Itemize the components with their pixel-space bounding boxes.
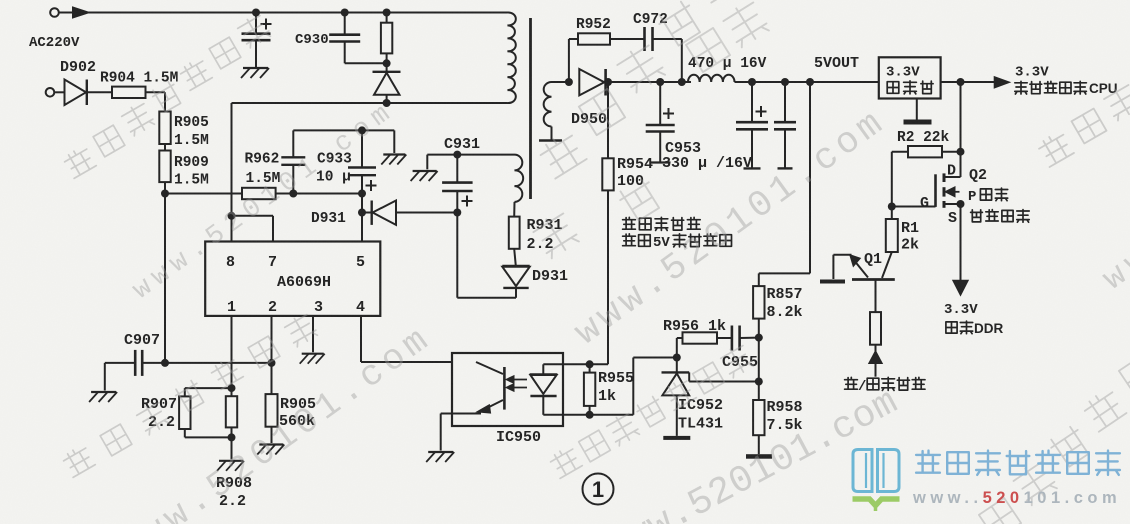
AC input terminal (top) — [50, 8, 59, 17]
resistor R952 — [578, 33, 610, 44]
label 560k — [279, 413, 315, 430]
watermark — [616, 176, 663, 223]
wire — [758, 435, 760, 454]
wire — [892, 152, 908, 207]
label R908 — [216, 475, 252, 492]
wire — [875, 280, 877, 313]
optocoupler phototransistor — [452, 362, 504, 414]
pin 8 — [226, 254, 235, 271]
watermark — [62, 13, 271, 178]
wire — [255, 13, 257, 34]
watermark — [941, 354, 1130, 524]
diode (snubber, unlabeled) — [373, 63, 401, 103]
pin 5 — [356, 254, 365, 271]
node TL431 cathode — [673, 354, 681, 362]
resistor R954 — [590, 82, 614, 364]
pin 2 — [268, 299, 277, 316]
wire TL431 ref — [689, 372, 759, 381]
node after inductor — [748, 78, 756, 86]
wire 5V rail — [606, 81, 879, 83]
node divider output — [161, 190, 169, 198]
label 1.5M — [174, 133, 209, 149]
wire — [293, 129, 394, 131]
wire — [590, 358, 677, 415]
label 2.2 — [527, 236, 554, 253]
wire pin5 vertical — [361, 194, 363, 242]
inductor 470u — [688, 75, 735, 82]
wire — [393, 130, 395, 153]
diode D950 — [579, 69, 605, 96]
resistor R907 — [179, 388, 231, 429]
arrow on/off signal — [870, 345, 882, 377]
node R955 bottom — [586, 411, 594, 419]
label D950 — [571, 111, 607, 128]
label R954 — [617, 156, 653, 173]
node ref divider — [755, 378, 763, 386]
watermark — [1036, 82, 1130, 167]
label 7.5k — [767, 417, 803, 434]
label 8.2k — [767, 304, 803, 321]
wire — [610, 38, 645, 40]
pin 3 — [314, 299, 323, 316]
resistor R956 — [683, 332, 718, 343]
label supplies DDR — [946, 321, 1004, 336]
label A6069H — [277, 274, 331, 291]
label D931 — [311, 211, 346, 227]
node filter cap 3 — [781, 78, 789, 86]
watermark — [128, 96, 402, 306]
watermark — [567, 101, 894, 355]
label 100 — [617, 173, 644, 190]
ic U901 A6069H — [205, 242, 380, 316]
ground R958 bar — [746, 454, 772, 459]
node D950 cathode — [604, 78, 612, 86]
node source — [957, 200, 965, 208]
logo url — [912, 489, 1121, 507]
wire — [740, 337, 759, 339]
wire — [164, 182, 166, 193]
capacitor C931 — [442, 155, 473, 213]
ground — [381, 155, 406, 165]
wire — [146, 92, 166, 111]
pin 1 — [227, 299, 236, 316]
node 3.3V out — [957, 78, 965, 86]
resistor R905 560k — [266, 394, 278, 427]
transistor Q2 (P-MOSFET) — [936, 152, 961, 208]
wire — [344, 13, 346, 35]
diode D902 — [55, 80, 113, 106]
label 10 u — [316, 170, 351, 186]
capacitor C933 — [281, 130, 305, 193]
node R2 right — [957, 148, 965, 156]
wire — [427, 155, 457, 170]
node 3.3V branch — [806, 78, 814, 86]
label Q1 — [864, 251, 882, 268]
wire — [942, 151, 961, 153]
label R958 — [767, 399, 803, 416]
label 470u 16V — [688, 56, 767, 72]
resistor (on/off signal, unlabeled) — [870, 312, 881, 345]
watermark — [548, 343, 754, 478]
wire — [271, 427, 273, 443]
node cap top wire — [358, 126, 366, 134]
wire — [717, 337, 732, 339]
wire top AC rail — [59, 12, 508, 14]
arrow 3.3V to DDR — [954, 281, 968, 295]
node R907 bottom — [228, 433, 236, 441]
resistor R962 — [242, 188, 276, 199]
node R955 top — [586, 360, 594, 368]
transformer secondary winding (5V) — [544, 82, 569, 140]
resistor (snubber, unlabeled) — [381, 13, 392, 64]
node snubber junction — [383, 59, 391, 67]
node top rail / C906 — [252, 9, 260, 17]
watermark — [61, 312, 318, 477]
label R1 — [901, 220, 919, 237]
label 1.5M — [246, 171, 281, 187]
ground — [411, 171, 438, 181]
label R956 1k — [663, 318, 726, 335]
label Q2 — [969, 167, 987, 184]
wire pin3 — [312, 316, 314, 352]
label C933 — [317, 152, 352, 168]
node primary bottom wire — [383, 99, 391, 107]
wire — [676, 358, 678, 373]
arrow 3.3V to CPU — [995, 77, 1009, 87]
wire — [758, 319, 760, 338]
wire — [165, 362, 272, 364]
label 3.3V (regulator) — [886, 65, 920, 81]
wire pin2 — [271, 316, 273, 394]
annotation: causes 5V instability — [623, 234, 732, 251]
label D902 — [60, 59, 96, 76]
label 330u/16V — [662, 155, 752, 172]
node top rail / snubber resistor — [383, 9, 391, 17]
wire — [960, 204, 962, 281]
wire pin7 — [232, 216, 274, 242]
capacitor (filter 3) — [774, 82, 796, 168]
node C933a bottom — [289, 190, 297, 198]
label R909 — [174, 155, 209, 171]
label C972 — [633, 12, 668, 28]
wire — [758, 338, 760, 382]
pin 7 — [268, 254, 277, 271]
watermark — [1096, 53, 1130, 298]
node R857/C955 — [755, 334, 763, 342]
annotation circled 1 — [583, 474, 614, 505]
node C953 top — [656, 78, 664, 86]
label on/off signal (CJK) — [845, 377, 925, 395]
ground secondary return bar — [539, 139, 562, 142]
watermark — [112, 317, 440, 524]
label AC220V — [29, 35, 80, 51]
wire — [231, 437, 233, 459]
ground — [257, 445, 284, 455]
label IC950 — [496, 429, 541, 446]
wire LED anode — [543, 363, 589, 365]
node C972 return — [678, 78, 686, 86]
regulator U (3.3V) — [879, 57, 941, 98]
label R905 (560k) — [280, 396, 316, 413]
capacitor C972 — [645, 27, 653, 51]
label C930 — [295, 32, 329, 48]
shunt regulator IC952 TL431 — [662, 372, 690, 436]
wire pin4 — [361, 316, 476, 362]
label regulator (CJK) — [887, 81, 933, 94]
transformer primary winding — [508, 12, 516, 103]
AC input terminal (bottom) — [46, 88, 55, 97]
label FET (CJK) — [971, 210, 1030, 223]
diode D931 (aux) — [502, 249, 529, 298]
optocoupler light arrows — [507, 376, 527, 390]
wire 3.3V out — [941, 81, 995, 83]
node aux winding wire — [453, 151, 461, 159]
wire — [441, 414, 452, 451]
label R857 — [767, 286, 803, 303]
ground regulator bar — [904, 120, 932, 125]
wire — [759, 82, 810, 286]
svg-text:www..520101.com: www..520101.com — [912, 489, 1121, 507]
wire — [916, 99, 918, 120]
wire — [345, 42, 387, 64]
wire — [276, 193, 362, 195]
wire — [142, 362, 165, 364]
label P-channel (CJK) — [968, 188, 1008, 205]
diode D931 — [362, 201, 457, 225]
ground — [217, 461, 244, 471]
logo site name (CJK) — [916, 451, 1120, 475]
ground TL431 bar — [663, 436, 690, 440]
capacitor (input filter, unlabeled) — [242, 19, 272, 41]
wire — [457, 154, 514, 156]
wire LED cathode — [543, 414, 589, 416]
label R904 1.5M — [100, 71, 178, 87]
label 2.2 — [219, 493, 246, 510]
wire primary return — [232, 102, 508, 104]
wire pin8 vertical — [231, 103, 233, 242]
watermark — [599, 381, 905, 524]
capacitor (10u electrolytic) — [348, 130, 377, 193]
capacitor C907 — [135, 350, 142, 376]
ground — [300, 354, 325, 364]
node gate/R1 — [888, 203, 896, 211]
wire — [457, 213, 516, 298]
label R931 — [527, 217, 563, 234]
transformer core — [529, 18, 532, 199]
label C953 — [665, 140, 701, 157]
resistor R904 — [112, 87, 146, 98]
node C931 bottom — [453, 209, 461, 217]
capacitor C955 — [732, 326, 740, 351]
wire — [164, 194, 166, 363]
label R952 — [576, 17, 611, 33]
pin 4 — [356, 299, 365, 316]
resistor R2 — [908, 146, 942, 157]
resistor R931 — [509, 202, 520, 249]
node pin7/pin8 — [228, 212, 236, 220]
label IC952 — [678, 397, 723, 414]
label 3.3V (DDR) — [944, 302, 978, 318]
annotation: cap deteriorates — [623, 217, 701, 230]
watermark — [686, 0, 770, 72]
capacitor (filter 2) — [736, 82, 768, 168]
wire — [653, 39, 682, 82]
label R955 — [598, 370, 634, 387]
resistor R857 — [753, 286, 764, 319]
label 5VOUT — [814, 55, 859, 72]
label D — [947, 163, 956, 180]
node pin5 net — [358, 190, 366, 198]
resistor R1 — [886, 207, 898, 253]
wire — [255, 40, 257, 67]
label C955 — [722, 354, 758, 371]
label C931 — [444, 136, 480, 153]
resistor R908 (parallel) — [185, 388, 237, 437]
watermark — [531, 210, 580, 259]
ground — [426, 452, 454, 462]
wire — [960, 82, 962, 152]
node pin2/R905 — [268, 359, 276, 367]
label R907 — [141, 396, 177, 413]
label R2 22k — [897, 130, 950, 146]
wire R952 tap — [569, 39, 578, 82]
polarity arrow on AC rail — [73, 8, 88, 18]
resistor R958 — [753, 382, 764, 436]
node R907 top — [228, 384, 236, 392]
label C907 — [124, 332, 160, 349]
label 3.3V — [1015, 65, 1049, 81]
ground — [89, 392, 117, 402]
label 2.2 — [148, 414, 175, 431]
label 1k — [598, 388, 616, 405]
label R905 — [174, 115, 209, 131]
wire — [105, 363, 135, 391]
optocoupler LED — [530, 364, 558, 415]
wire pin1 — [231, 316, 233, 388]
label D931 (aux) — [532, 268, 568, 285]
ground Q1 emitter bar — [820, 280, 845, 284]
label S — [948, 210, 957, 227]
wire — [165, 193, 242, 195]
node top rail / C930 — [341, 9, 349, 17]
node D931 anode tap — [358, 209, 366, 217]
capacitor C930 — [329, 35, 360, 42]
label R962 — [245, 152, 280, 168]
resistor R955 — [584, 364, 595, 415]
resistor R909 — [159, 151, 170, 183]
transformer auxiliary winding — [515, 155, 524, 202]
node secondary top — [565, 78, 573, 86]
label 2k — [901, 237, 919, 254]
wire gate — [892, 206, 936, 208]
node divider / C907 — [161, 359, 169, 367]
resistor R905 — [159, 112, 170, 145]
label G — [920, 195, 929, 212]
watermark — [537, 0, 743, 179]
logo book icon — [853, 450, 900, 512]
wire — [677, 338, 683, 358]
label TL431 — [678, 416, 723, 433]
wire — [164, 144, 166, 151]
ground — [241, 68, 269, 78]
label supplies memory CPU — [1015, 81, 1118, 96]
capacitor C953 — [646, 82, 675, 163]
optocoupler IC950 box — [452, 353, 563, 426]
transistor Q1 — [833, 252, 894, 280]
label 1.5M — [174, 173, 209, 189]
